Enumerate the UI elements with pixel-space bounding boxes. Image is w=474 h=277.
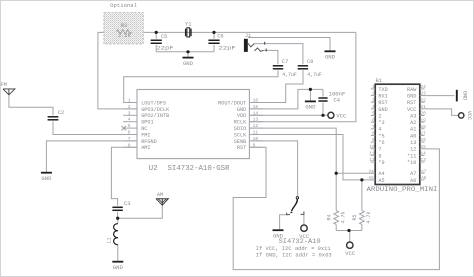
wire: crystal top rail from R3 to RCLK corner: [143, 31, 356, 33]
svg-text:2.2k: 2.2k: [118, 33, 130, 39]
node: SDIO/A4/R4 junction: [335, 172, 338, 175]
svg-text:GPO3/DCLK: GPO3/DCLK: [141, 107, 170, 113]
ground on RFGND net: [41, 172, 52, 174]
svg-text:2: 2: [372, 92, 375, 97]
svg-text:RST: RST: [237, 145, 246, 151]
svg-text:C3: C3: [124, 201, 130, 207]
svg-text:3: 3: [372, 98, 375, 103]
pin 3 GPO2/INTB stub: [123, 114, 137, 116]
node: jack tip tick: [264, 42, 266, 45]
pin 10 SENB stub: [249, 140, 263, 142]
wire: ROUT pin16 to C8 bottom: [249, 70, 303, 102]
svg-text:4.7k: 4.7k: [366, 211, 372, 223]
svg-text:14: 14: [253, 110, 259, 116]
svg-text:L1: L1: [107, 237, 113, 243]
resistor R3 2.2k: [117, 30, 132, 34]
svg-text:TXD: TXD: [378, 87, 387, 93]
svg-text:9: 9: [372, 138, 375, 143]
svg-text:C8: C8: [307, 59, 313, 65]
svg-text:17: 17: [421, 132, 427, 137]
svg-text:A4: A4: [369, 170, 375, 174]
svg-text:22pF: 22pF: [157, 45, 174, 52]
svg-text:SI4732-A10-GSR: SI4732-A10-GSR: [168, 165, 231, 173]
svg-text:GND: GND: [113, 264, 124, 271]
node: jack ring tick: [265, 49, 267, 52]
svg-text:FM: FM: [1, 82, 7, 88]
svg-text:4: 4: [378, 127, 381, 133]
capacitor C6 22pF: [208, 39, 219, 41]
VCC supply circle (VDD rail): [328, 112, 334, 118]
ground on pin15 net: [305, 100, 316, 102]
svg-text:2: 2: [128, 104, 131, 110]
wire: C5-C6 bottom bus: [156, 51, 214, 53]
wire: A4 branch: [336, 172, 375, 174]
svg-text:8: 8: [128, 142, 131, 148]
svg-text:4,7uF: 4,7uF: [307, 71, 322, 78]
svg-text:12: 12: [410, 147, 416, 153]
svg-text:RXI: RXI: [378, 93, 387, 99]
svg-text:10: 10: [369, 145, 375, 150]
svg-text:2: 2: [378, 113, 381, 119]
svg-text:13: 13: [253, 117, 259, 123]
arduino pin 9 *6 stub: [371, 141, 375, 143]
svg-text:A7: A7: [421, 170, 427, 174]
svg-text:GND: GND: [378, 107, 387, 113]
svg-text:Y1: Y1: [185, 21, 191, 27]
svg-text:SENB: SENB: [234, 139, 246, 145]
svg-text:LOUT/DFS: LOUT/DFS: [141, 100, 166, 106]
svg-text:Optional: Optional: [110, 2, 137, 9]
svg-text:19: 19: [421, 118, 427, 123]
arduino pin 13 *10 stub: [420, 161, 425, 163]
NC pin5 X mark: [121, 126, 126, 131]
arduino pin 3 RST stub: [371, 101, 375, 103]
svg-text:NC: NC: [141, 126, 147, 132]
node: C6 top junction: [212, 31, 215, 34]
pin 9 RST stub: [249, 146, 263, 148]
svg-text:GND: GND: [407, 93, 416, 99]
svg-text:C6: C6: [217, 34, 223, 40]
wire: FM antenna to C2: [9, 95, 53, 115]
svg-text:18: 18: [421, 125, 427, 130]
wire: VDD pin14 rail to VCC: [249, 114, 328, 116]
wire: AMI pin8 down to C3: [111, 147, 137, 206]
svg-text:8: 8: [378, 153, 381, 159]
svg-text:21: 21: [421, 105, 427, 110]
svg-text:23: 23: [421, 92, 427, 97]
wire: R4 bottom lead: [335, 224, 337, 230]
svg-text:3: 3: [128, 110, 131, 116]
svg-text:6: 6: [372, 118, 375, 123]
arduino pin 10 7 stub: [371, 148, 375, 150]
arduino pin 16 13 stub: [420, 141, 425, 143]
pin 8 AMI stub: [123, 146, 137, 148]
node: SCLK/A5/R5 junction: [360, 178, 363, 181]
arduino pin 6 *3 stub: [371, 121, 375, 123]
jack ring contact: [255, 48, 264, 51]
svg-text:AMI: AMI: [141, 145, 150, 151]
ground below L1: [112, 261, 123, 263]
svg-text:*3: *3: [378, 120, 384, 126]
svg-text:4: 4: [372, 105, 375, 110]
wire: switch left contact to GND: [280, 215, 288, 230]
ground at Arduino GND pin (rotated): [456, 90, 458, 102]
wire: jack sleeve to GND: [248, 38, 330, 51]
svg-text:*11: *11: [407, 153, 416, 159]
svg-text:12: 12: [369, 158, 375, 163]
svg-text:R5: R5: [352, 214, 358, 220]
svg-text:A7: A7: [410, 171, 416, 177]
svg-text:U2: U2: [149, 165, 158, 173]
svg-text:SI4732-A10: SI4732-A10: [279, 238, 321, 245]
pin 13 RCLK stub: [249, 121, 263, 123]
svg-text:AM: AM: [157, 192, 163, 198]
ground for switch: [273, 229, 284, 231]
wire: R5 bottom lead: [361, 224, 363, 230]
svg-text:GND: GND: [183, 60, 194, 67]
svg-text:GND: GND: [305, 104, 316, 111]
svg-text:7: 7: [128, 136, 131, 142]
arduino pin 15 12 stub: [420, 148, 425, 150]
VCC below pullup bus: [347, 242, 353, 248]
svg-text:A5: A5: [378, 178, 384, 184]
arduino pin 18 A1 stub: [420, 128, 425, 130]
svg-text:R4: R4: [326, 214, 332, 220]
svg-text:5: 5: [128, 123, 131, 129]
node: pin15 gnd junction: [309, 88, 312, 91]
wire: SENB pin10 down to switch pole: [249, 141, 297, 196]
capacitor C4 100nF: [318, 97, 327, 99]
svg-text:4: 4: [128, 117, 131, 123]
svg-text:100nF: 100nF: [329, 91, 346, 98]
capacitor C7 4,7uF: [273, 65, 283, 67]
svg-text:*6: *6: [378, 140, 384, 146]
svg-text:A3: A3: [410, 113, 416, 119]
svg-text:A6: A6: [410, 178, 416, 184]
wire: L1 bottom to GND: [117, 245, 119, 262]
svg-text:ROUT/DOUT: ROUT/DOUT: [218, 100, 246, 106]
wire: RFGND pin7 to GND: [46, 141, 137, 172]
arduino pin 5 2 stub: [371, 115, 375, 117]
wire: LOUT pin1 riser to C7 bottom rail: [124, 70, 278, 102]
svg-text:1: 1: [128, 98, 131, 104]
ground for jack sleeve: [325, 50, 336, 52]
switch I2C address select: [296, 197, 298, 199]
pin 7 RFGND stub: [123, 140, 137, 142]
arduino pin 19 A2 stub: [420, 121, 425, 123]
wire: SDIO pin12 to A4 and down to R4: [249, 128, 336, 211]
svg-text:RST: RST: [407, 100, 416, 106]
pin 11 SCLK stub: [249, 134, 263, 136]
svg-text:13: 13: [421, 158, 427, 163]
pin 15 GND stub: [249, 108, 263, 110]
svg-text:4.7k: 4.7k: [340, 211, 346, 223]
svg-text:B1: B1: [376, 78, 382, 84]
wire: jack tip contact to C8 top: [254, 44, 303, 65]
arduino pin 11 8 stub: [371, 154, 375, 156]
svg-text:12: 12: [253, 123, 259, 129]
arduino pin A5/A6 stubs: [371, 179, 375, 181]
svg-text:*10: *10: [407, 160, 416, 166]
svg-text:15: 15: [253, 104, 259, 110]
svg-text:SCLK: SCLK: [234, 132, 247, 138]
svg-text:C4: C4: [334, 98, 340, 104]
node: C5C6 gnd junction: [186, 50, 189, 53]
wire: RST pin9 long path to Arduino D12: [233, 147, 439, 269]
svg-text:ARDUINO_PRO_MINI: ARDUINO_PRO_MINI: [367, 186, 438, 193]
svg-text:9: 9: [253, 142, 256, 148]
svg-text:FMI: FMI: [141, 132, 150, 138]
VCC for switch: [301, 225, 307, 231]
svg-text:SDIO: SDIO: [234, 126, 246, 132]
arduino pin 12 *9 stub: [371, 161, 375, 163]
wire: C6 leads: [213, 32, 215, 38]
svg-text:*9: *9: [378, 160, 384, 166]
svg-text:8: 8: [372, 132, 375, 137]
svg-text:10: 10: [253, 136, 259, 142]
svg-text:GND: GND: [41, 175, 52, 182]
svg-text:C7: C7: [282, 59, 288, 65]
arduino pin 22 RST stub: [420, 101, 425, 103]
svg-text:A2: A2: [410, 120, 416, 126]
svg-text:1: 1: [372, 85, 375, 90]
arduino pin 7 4 stub: [371, 128, 375, 130]
svg-text:*5: *5: [378, 133, 384, 139]
svg-text:GND: GND: [461, 91, 467, 100]
svg-text:R3: R3: [121, 23, 127, 29]
svg-text:VCC: VCC: [466, 111, 472, 120]
wire: C4 top lead: [322, 89, 324, 96]
svg-text:7: 7: [372, 125, 375, 130]
jack tip contact: [248, 43, 254, 47]
svg-text:13: 13: [410, 140, 416, 146]
wire: GND pin15 path to C4 top: [249, 89, 323, 109]
wire: bus to VCC circle: [349, 231, 351, 242]
svg-text:16: 16: [253, 98, 259, 104]
pin 6 FMI stub: [123, 134, 137, 136]
svg-text:GPO1: GPO1: [141, 120, 153, 126]
pin 2 GPO3/DCLK stub: [123, 108, 137, 110]
svg-text:If VCC, I2C addr = 0x11: If VCC, I2C addr = 0x11: [256, 246, 331, 252]
node: C4/VCC junction: [321, 114, 324, 117]
svg-text:VCC: VCC: [407, 107, 416, 113]
wire: switch right contact to VCC: [303, 214, 305, 225]
IC U2 SI4732-A10-GSR box: [137, 90, 249, 159]
node: C5 top junction: [155, 31, 158, 34]
VCC at Arduino VCC pin (rotated): [459, 113, 464, 118]
svg-text:22: 22: [421, 98, 427, 103]
resistor R5 4.7k: [360, 211, 365, 225]
wire: R4-R5 bottom bus: [336, 230, 362, 232]
svg-text:If GND, I2C addr = 0x63: If GND, I2C addr = 0x63: [256, 253, 332, 259]
svg-text:20: 20: [421, 112, 427, 117]
pin 16 ROUT/DOUT stub: [249, 102, 263, 104]
svg-text:22pF: 22pF: [219, 45, 236, 52]
wire: Arduino GND pin to ground: [425, 95, 455, 97]
node: R4R5 bus VCC junction: [347, 229, 350, 232]
svg-text:VCC: VCC: [336, 112, 347, 119]
pin 5 NC stub: [123, 127, 137, 129]
capacitor C8 4,7uF: [298, 65, 308, 67]
arduino pin 14 *11 stub: [420, 154, 425, 156]
svg-text:5: 5: [372, 112, 375, 117]
wire: C2 bottom to FMI pin6: [53, 121, 137, 134]
wire: A5 junction down to R5: [361, 180, 363, 211]
arduino pin 20 A3 stub: [420, 115, 425, 117]
wire: R3 left to GPO3/DCLK pin2: [98, 32, 137, 109]
svg-text:14: 14: [421, 152, 427, 157]
arduino pin 1 TXD stub: [371, 88, 375, 90]
svg-text:A1: A1: [410, 127, 416, 133]
svg-text:4,7uF: 4,7uF: [282, 71, 297, 78]
optional box (hatched): [104, 13, 143, 44]
svg-text:A6: A6: [421, 177, 427, 181]
pin 14 VDD stub: [249, 114, 263, 116]
svg-text:16: 16: [421, 138, 427, 143]
wire: C4 bottom lead: [322, 103, 324, 116]
wire: junction to AM antenna: [118, 205, 163, 218]
svg-text:11: 11: [253, 130, 259, 136]
ground below C5/C6: [183, 57, 194, 59]
svg-text:C2: C2: [58, 110, 64, 116]
wire: gnd stem below bus: [187, 52, 189, 58]
svg-text:11: 11: [369, 152, 375, 157]
svg-text:GND: GND: [325, 54, 336, 61]
pin 1 LOUT/DFS stub: [123, 102, 137, 104]
arduino pin 8 *5 stub: [371, 134, 375, 136]
svg-text:A5: A5: [369, 177, 375, 181]
svg-text:15: 15: [421, 145, 427, 150]
arduino pin 23 GND stub: [420, 95, 425, 97]
svg-text:A0: A0: [410, 133, 416, 139]
svg-text:GPO2/INTB: GPO2/INTB: [141, 113, 169, 119]
svg-text:GND: GND: [237, 107, 246, 113]
svg-text:RFGND: RFGND: [141, 139, 157, 145]
capacitor C5 22pF: [151, 39, 162, 41]
svg-text:24: 24: [421, 85, 427, 90]
wire: C3 bottom to junction: [117, 212, 119, 218]
wire: gnd stem below dot on pin15 path: [309, 89, 311, 101]
arduino pin 4 GND stub: [371, 108, 375, 110]
resistor R4 4.7k: [334, 211, 339, 225]
svg-text:C5: C5: [161, 34, 167, 40]
svg-text:RAW: RAW: [407, 87, 417, 93]
svg-text:J1: J1: [245, 33, 251, 39]
arduino pin 2 RXI stub: [371, 95, 375, 97]
svg-text:6: 6: [128, 130, 131, 136]
wire: C5 leads + bottom bus: [155, 32, 157, 38]
arduino pin 24 RAW stub: [420, 88, 425, 90]
wire: Arduino VCC pin to supply: [425, 109, 459, 116]
svg-text:7: 7: [378, 147, 381, 153]
wire: RCLK return vertical + to pin13: [249, 32, 356, 121]
node: C3/L1/AM junction: [116, 217, 119, 220]
pin 12 SDIO stub: [249, 127, 263, 129]
wire: junction to L1 top: [117, 218, 119, 223]
wire: jack ring contact to C7 top: [264, 50, 278, 64]
wire: SCLK pin11 to A5: [249, 135, 375, 180]
svg-text:VDD: VDD: [237, 113, 246, 119]
arduino pin A4/A7 stubs: [371, 172, 375, 174]
svg-text:RCLK: RCLK: [234, 120, 247, 126]
arduino pin 21 VCC stub: [420, 108, 425, 110]
arduino pin 17 A0 stub: [420, 134, 425, 136]
svg-text:A4: A4: [378, 171, 384, 177]
svg-text:VCC: VCC: [345, 250, 356, 257]
svg-text:RST: RST: [378, 100, 387, 106]
pin 4 GPO1 stub: [123, 121, 137, 123]
